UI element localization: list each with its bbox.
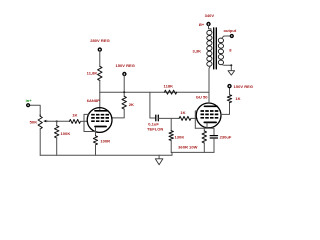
svg-text:TEFLON: TEFLON <box>147 127 163 132</box>
node 150V crossing dot <box>123 91 125 93</box>
wire secondary top to output <box>222 36 230 39</box>
V2 grid row 2 <box>201 113 219 115</box>
wire ground rail <box>40 154 172 156</box>
V1 grid row 2 <box>91 117 109 119</box>
wire V1 cathode lead <box>95 127 97 136</box>
V1 plate bar <box>95 110 108 112</box>
svg-text:360R 10W: 360R 10W <box>178 144 197 149</box>
wire gu50 screen <box>221 103 230 115</box>
wire 2K to driver screen <box>112 109 125 118</box>
svg-text:in+: in+ <box>26 98 33 103</box>
svg-text:3,3K: 3,3K <box>192 49 201 54</box>
wire in+ to pot top <box>30 105 41 116</box>
wire V2 cathode lead <box>206 123 208 128</box>
svg-text:50K: 50K <box>30 120 38 125</box>
svg-text:B+: B+ <box>199 22 205 27</box>
capacitor 0.1uF plate left <box>155 115 157 121</box>
V1 grid row 3 <box>91 120 109 122</box>
svg-text:100K: 100K <box>61 131 71 136</box>
wire 150V to 2K <box>123 76 125 97</box>
node secondary ground dot <box>230 64 232 66</box>
V1 cathode bar <box>95 126 106 128</box>
wire B+ to primary <box>209 26 212 31</box>
resistor 1K gu50 grid stopper <box>179 116 191 120</box>
ground symbol main <box>158 155 160 158</box>
transformer T1 core <box>213 28 215 69</box>
svg-text:0,1uF: 0,1uF <box>148 121 159 126</box>
node wiper/100K junction <box>56 120 58 122</box>
V1 grid row 1 <box>91 114 109 116</box>
resistor 118K feedback <box>164 90 176 94</box>
wire 1K to 150V terminal <box>229 88 231 95</box>
resistor 11.8K <box>98 66 102 80</box>
wire feedback plate-to-plate <box>100 91 209 93</box>
svg-text:130K: 130K <box>175 135 185 140</box>
capacitor 230uF lead bottom <box>213 139 215 153</box>
ground symbol output <box>228 71 235 75</box>
svg-text:150V REG: 150V REG <box>234 84 254 89</box>
resistor 130K grid leak <box>170 118 172 130</box>
wire jog to ground rail <box>171 152 173 155</box>
capacitor 230uF lead top <box>213 128 215 135</box>
svg-text:6AN8P: 6AN8P <box>87 98 100 103</box>
wire V2 plate lead <box>208 92 210 103</box>
transformer T1 primary winding <box>206 30 212 67</box>
resistor 2K <box>122 96 126 109</box>
capacitor 230uF plate top <box>210 135 217 137</box>
V2 plate bar <box>205 105 218 107</box>
resistor 1K screen <box>227 95 231 103</box>
wire coupling tap down <box>150 92 156 118</box>
terminal 150V REG left <box>123 73 126 76</box>
resistor 100R <box>93 136 97 145</box>
wire secondary bottom to ground <box>222 64 232 70</box>
wire 11.8K to plate node <box>99 81 101 93</box>
svg-text:340V: 340V <box>205 13 215 18</box>
resistor 360R cathode <box>203 128 205 131</box>
capacitor 0.1uF plate right <box>157 115 159 121</box>
svg-text:1K: 1K <box>235 96 240 101</box>
terminal output <box>230 35 233 38</box>
wire cap to 1K gu50 <box>159 117 179 119</box>
resistor 1K driver grid <box>69 119 80 123</box>
potentiometer R 50K <box>38 116 42 129</box>
svg-text:GU 50: GU 50 <box>196 94 209 99</box>
svg-text:1K: 1K <box>72 113 77 118</box>
wire 1K to gu50 grid <box>191 117 197 119</box>
wire driver plate lead <box>99 92 101 111</box>
wire 100R to rail <box>95 145 97 156</box>
V1 suppressor tie bracket <box>84 114 96 131</box>
terminal B+ <box>207 23 210 26</box>
svg-text:1K: 1K <box>180 110 185 115</box>
wire primary bottom to plate line <box>209 66 211 92</box>
svg-text:100R: 100R <box>100 138 110 143</box>
V2 cathode bar <box>204 121 216 123</box>
tube V2 GU 50 envelope <box>196 103 221 128</box>
wire 280V to 11.8K <box>99 51 101 66</box>
terminal 280V REG <box>98 48 101 51</box>
wire 1K to driver grid <box>80 120 87 122</box>
wire cathode network bottom bus <box>171 151 214 153</box>
transformer T1 secondary winding <box>218 38 224 65</box>
svg-text:150V REG: 150V REG <box>115 63 135 68</box>
svg-text:11,8K: 11,8K <box>87 70 98 75</box>
node pot top dot <box>39 114 41 116</box>
resistor 100K <box>56 121 58 125</box>
tube V1 driver envelope <box>87 108 112 133</box>
svg-text:118K: 118K <box>164 83 174 88</box>
pot wiper arrow <box>46 120 48 122</box>
V2 grid row 3 <box>201 117 219 119</box>
wire pot bottom to ground rail <box>39 129 41 155</box>
svg-text:2K: 2K <box>129 102 134 107</box>
svg-text:230uF: 230uF <box>220 135 232 140</box>
svg-text:280V REG: 280V REG <box>90 38 110 43</box>
V2 grid row 1 <box>201 110 219 112</box>
V2 suppressor tie bracket <box>195 111 197 128</box>
wire wiper signal to grid resistor <box>47 120 70 122</box>
terminal in+ <box>27 104 30 107</box>
svg-text:output: output <box>224 28 237 33</box>
capacitor 230uF plate bottom <box>210 137 217 139</box>
wire cathode bus <box>195 127 214 129</box>
terminal 150V REG right <box>228 85 231 88</box>
